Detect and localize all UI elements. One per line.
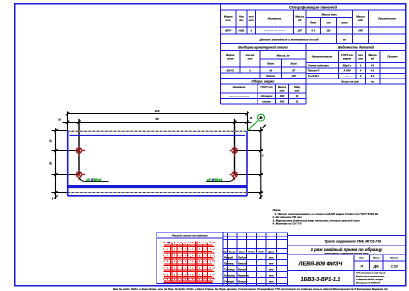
svg-text:Масшт: Масшт: [390, 258, 398, 260]
svg-text:Петля П: Петля П: [308, 69, 319, 73]
svg-text:ГОСТ-ст: ГОСТ-ст: [341, 53, 354, 57]
svg-text:Дата: Дата: [267, 252, 275, 254]
svg-text:1 ряж свайный прием по образцу: 1 ряж свайный прием по образцу: [311, 247, 383, 252]
bottom right org cell tiny lines: [356, 272, 385, 285]
svg-text:4 1: 4 1: [310, 29, 315, 33]
svg-text:эт.: эт.: [239, 18, 244, 22]
svg-text:ФПЧ: ФПЧ: [225, 29, 232, 33]
svg-text:—: —: [345, 75, 349, 78]
svg-text:Масса: Масса: [373, 258, 380, 260]
svg-text:Т.контр.: Т.контр.: [224, 267, 235, 271]
svg-text:Трест горремонт ТМ4, МГО1-ГМ: Трест горремонт ТМ4, МГО1-ГМ: [324, 240, 381, 244]
steel consumption box: [157, 232, 223, 283]
reinforcement mesh solid bars: [164, 242, 214, 283]
svg-text:ФЗЧ1: ФЗЧ1: [227, 68, 235, 72]
mesh blue corner mark: [168, 242, 170, 244]
svg-text:197: 197: [297, 29, 302, 33]
svg-text:Спецификация панелей: Спецификация панелей: [289, 4, 337, 9]
title block right grid: [223, 235, 406, 285]
svg-text:Власов: Власов: [238, 279, 248, 283]
svg-text:тт: тт: [269, 274, 274, 277]
lifting loop top-right: [230, 146, 239, 156]
svg-text:шт: шт: [248, 58, 253, 61]
panel hidden bottom edge: yellow base: [68, 192, 248, 194]
svg-text:118: 118: [155, 109, 160, 113]
svg-text:Примеч: Примеч: [387, 55, 398, 59]
leader curve from bottom-left loop: [80, 177, 86, 181]
svg-text:А-240: А-240: [342, 69, 351, 73]
svg-text:— — — — — —: — — — — — —: [228, 95, 249, 98]
svg-text:30: 30: [49, 162, 53, 165]
svg-text:245: 245: [357, 29, 363, 33]
table A specification grid: [221, 4, 406, 44]
svg-text:111: 111: [326, 29, 331, 33]
svg-text:марка: марка: [343, 58, 352, 61]
svg-text:Изм: Изм: [223, 252, 228, 254]
svg-text:Иванова: Иванова: [238, 273, 249, 277]
svg-text:наименование и маркировка пане: наименование и маркировка панелей измер: [325, 252, 370, 255]
svg-text:Сл.д.М-1: Сл.д.М-1: [308, 74, 320, 78]
svg-text:202: 202: [279, 94, 285, 98]
rebar label right underline: [206, 181, 229, 183]
table C assembly marks grid: [221, 79, 307, 105]
svg-text:Всех: Всех: [291, 62, 298, 66]
svg-text:итого: итого: [262, 101, 271, 104]
svg-text:всех: всех: [341, 21, 348, 25]
lifting loop bottom-left: [75, 170, 85, 180]
svg-text:Лит.: Лит.: [358, 258, 365, 260]
svg-text:ед: ед: [298, 18, 302, 22]
svg-text:Итого: Итого: [266, 74, 275, 78]
svg-text:ед: ед: [371, 57, 375, 61]
table B steel list grid: [221, 44, 406, 105]
svg-text:Кол.уч: Кол.уч: [229, 252, 236, 254]
svg-text:97: 97: [292, 68, 295, 72]
table D texts: [308, 46, 398, 84]
title block left grid: [223, 233, 288, 286]
svg-text:тт: тт: [269, 262, 274, 265]
panel hidden top edge: blue dashes: [68, 130, 248, 132]
svg-text:ГУП институт по отд стр-ва: ГУП институт по отд стр-ва: [356, 272, 385, 275]
svg-text:Наименование: Наименование: [312, 55, 333, 59]
svg-text:шт: шт: [280, 89, 285, 92]
svg-text:c5 Ø4Вр1: c5 Ø4Вр1: [86, 178, 102, 182]
svg-text:тт: тт: [269, 256, 274, 259]
svg-text:4. Монтаж по СН 7-8: 4. Монтаж по СН 7-8: [272, 222, 302, 226]
svg-text:элем: элем: [227, 58, 234, 61]
svg-text:41: 41: [370, 63, 374, 67]
svg-text:Выборка арматурной стали: Выборка арматурной стали: [238, 46, 288, 50]
title block header small texts: [223, 251, 275, 254]
rebar label left underline: [85, 181, 108, 183]
svg-text:Ведомость деталей: Ведомость деталей: [338, 46, 375, 50]
svg-text:202: 202: [279, 100, 285, 104]
table B texts: [226, 46, 297, 78]
lifting loop bottom-right: [230, 170, 239, 180]
svg-text:Примечание: Примечание: [378, 17, 396, 21]
svg-text:Расход стали на изделие: Расход стали на изделие: [172, 233, 208, 237]
panel top dimension line 2: [63, 119, 252, 175]
svg-text:Сетка подъемн: Сетка подъемн: [308, 63, 329, 67]
notes block: [272, 208, 379, 226]
svg-text:бет: бет: [310, 21, 316, 25]
panel inner top line: [70, 134, 246, 136]
svg-text:14: 14: [269, 68, 272, 72]
svg-text:поз.: поз.: [225, 18, 231, 22]
title block signature rows: [224, 255, 274, 283]
svg-text:НЗБ: НЗБ: [239, 29, 245, 33]
svg-text:Детали закладные и монтажные н: Детали закладные и монтажные на изд: [258, 37, 318, 41]
table C texts: [228, 80, 301, 104]
svg-text:11: 11: [296, 100, 299, 104]
svg-text:1:10: 1:10: [391, 265, 398, 269]
leader curve from bottom-right loop: [229, 177, 234, 181]
svg-text:ЛЕВЯ-809 ФИЗЧ: ЛЕВЯ-809 ФИЗЧ: [298, 261, 343, 267]
svg-text:58: 58: [155, 117, 159, 121]
table A texts: [224, 4, 396, 41]
svg-text:Масса: Масса: [368, 53, 377, 57]
table D parts list grid: [306, 51, 406, 85]
svg-text:Название: Название: [268, 17, 282, 21]
svg-text:тт: тт: [269, 280, 274, 283]
svg-text:1БВЗ-3-ВР1-1.1: 1БВЗ-3-ВР1-1.1: [301, 277, 341, 283]
svg-text:ДБ: ДБ: [373, 265, 379, 269]
svg-text:кг: кг: [343, 37, 346, 41]
svg-text:11: 11: [296, 94, 299, 98]
panel outline left/right/bottom: [68, 131, 248, 196]
svg-text:ст: ст: [326, 21, 331, 25]
svg-text:Утверд.: Утверд.: [224, 279, 235, 283]
panel top dimension line 1: [66, 111, 249, 130]
panel hidden bottom edge: blue dashes: [68, 192, 248, 194]
svg-text:и обществ зданий и сооруж: и обществ зданий и сооруж: [356, 278, 384, 281]
panel hidden top edge: yellow base line: [68, 130, 248, 132]
svg-text:кол: кол: [295, 89, 300, 92]
view mark green circle: [247, 114, 264, 131]
reinforcement mesh dotted bars: [163, 242, 214, 283]
svg-text:шт: шт: [249, 18, 254, 22]
svg-text:Всего на изд: Всего на изд: [341, 80, 359, 84]
left vertical dimension chain: [52, 128, 80, 199]
svg-text:тт: тт: [269, 268, 274, 271]
svg-text:Подп: Подп: [259, 251, 265, 254]
svg-text:4.1: 4.1: [370, 74, 375, 78]
svg-text:Москов орг по проект жилых: Москов орг по проект жилых: [356, 276, 385, 278]
svg-text:Масса, кг: Масса, кг: [276, 54, 290, 58]
svg-text:c5 Ø4Вр1: c5 Ø4Вр1: [207, 178, 223, 182]
lifting loop top-left: [75, 146, 85, 156]
svg-text:Один.: Один.: [267, 62, 275, 66]
svg-text:Лобов: Лобов: [237, 255, 246, 259]
svg-text:изд.: изд.: [358, 18, 364, 22]
svg-text:Мастерская № 6 НИО-ПЧ: Мастерская № 6 НИО-ПЧ: [356, 281, 381, 284]
right vertical dimension chain: [235, 125, 266, 199]
svg-text:Название: Название: [233, 85, 246, 89]
panel thick bottom chord bar: [68, 185, 247, 188]
svg-text:5Вр1-с: 5Вр1-с: [343, 63, 352, 67]
svg-text:сб.панел: сб.панел: [261, 94, 273, 98]
svg-text:Сборн. марки: Сборн. марки: [252, 80, 276, 84]
svg-text:4.1: 4.1: [370, 69, 375, 73]
svg-text:Разраб.: Разраб.: [224, 255, 234, 259]
svg-text:Марка: Марка: [226, 53, 235, 57]
svg-text:Лист: Лист: [238, 252, 245, 254]
svg-text:Н.контр.: Н.контр.: [224, 273, 236, 277]
svg-text:Масса дет: Масса дет: [322, 12, 338, 16]
svg-text:Инв № подл. Подп. и дата Вза: Инв № подл. Подп. и дата Взам. инв. № Ин…: [113, 287, 388, 291]
svg-text:Провер.: Провер.: [224, 261, 234, 265]
svg-text:197: 197: [291, 74, 296, 78]
svg-text:Белов: Белов: [238, 267, 246, 271]
svg-text:Квасов: Квасов: [238, 261, 247, 265]
svg-text:шт: шт: [358, 58, 363, 61]
svg-text:— — — — — —: — — — — — —: [263, 29, 285, 33]
svg-text:№ док: № док: [248, 251, 256, 254]
